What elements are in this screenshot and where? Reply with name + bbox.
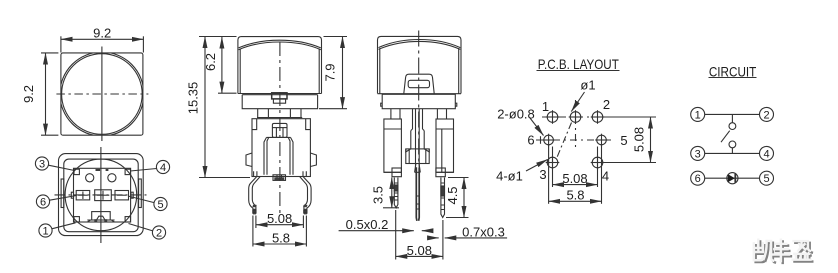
tube flare bbox=[411, 129, 424, 131]
pcb dim 5.08 vertical bbox=[650, 117, 652, 163]
svg-text:1: 1 bbox=[542, 99, 549, 114]
label 0.5x0.2 with leader bbox=[339, 230, 433, 232]
top edge tabs bbox=[96, 169, 101, 171]
circuit title underline bbox=[709, 77, 757, 79]
pcb hole 2 bbox=[591, 110, 605, 124]
switch body outline bbox=[252, 119, 310, 177]
stub right bbox=[437, 109, 446, 119]
svg-text:6.2: 6.2 bbox=[203, 53, 218, 71]
LED cathode bar bbox=[734, 174, 736, 183]
svg-text:5.08: 5.08 bbox=[267, 211, 292, 226]
leader 6 bbox=[50, 196, 77, 201]
svg-text:6: 6 bbox=[695, 173, 701, 185]
pin number balloon 2 bbox=[152, 226, 165, 239]
pcb extension line hole6 down bbox=[548, 145, 550, 204]
dimension 15.35 (overall height) bbox=[199, 37, 250, 178]
svg-text:5: 5 bbox=[620, 133, 627, 148]
svg-text:4: 4 bbox=[763, 148, 769, 160]
side cap inner side lines bbox=[380, 48, 459, 93]
neck base plate bbox=[257, 117, 302, 119]
side collar bbox=[382, 94, 455, 108]
svg-text:2-ø0.8: 2-ø0.8 bbox=[497, 107, 535, 122]
pcb hole 3 bbox=[546, 156, 560, 170]
top view horizontal center line bbox=[56, 93, 148, 95]
leader 1 bbox=[52, 223, 76, 229]
side cap inner contour (double dome) bbox=[379, 40, 461, 48]
svg-text:4.5: 4.5 bbox=[445, 186, 460, 204]
pcb title underline bbox=[537, 70, 620, 72]
pin pad bottom-right bbox=[125, 217, 130, 222]
dimension 9.2 vertical (left) bbox=[41, 53, 58, 135]
pin number balloon 6 bbox=[36, 195, 49, 208]
front cap outline bbox=[238, 37, 322, 94]
front cap inner top contour (double dome) bbox=[239, 40, 321, 48]
bottom boss dark marks bbox=[94, 219, 97, 222]
side cap window outer bbox=[404, 74, 434, 93]
dimension 6.2 (cap height) bbox=[218, 37, 237, 93]
leader diameter 1 bbox=[571, 92, 584, 112]
svg-text:2: 2 bbox=[156, 227, 162, 239]
pin pad top-left bbox=[74, 169, 79, 174]
top view vertical center line bbox=[101, 47, 103, 142]
LED lead ticks bbox=[416, 196, 421, 209]
pin pad top-right bbox=[125, 169, 130, 174]
right lead narrow bbox=[441, 178, 445, 218]
LED leads thin pair bbox=[415, 167, 418, 221]
leader 4-diameter 1 bbox=[526, 160, 548, 172]
bottom view inner rounded square bbox=[64, 159, 138, 232]
LED leads inside tube bbox=[416, 109, 420, 167]
LED lens hole left bbox=[86, 174, 94, 182]
foot right bbox=[436, 168, 445, 177]
neck ticks bbox=[258, 109, 301, 118]
top view inner circle bbox=[62, 54, 143, 135]
wide tube section bbox=[411, 131, 424, 149]
right lead crimp ticks bbox=[441, 183, 445, 210]
left lead (bent) outer bbox=[249, 177, 257, 214]
svg-text:3: 3 bbox=[695, 148, 701, 160]
bottom view horizontal center line bbox=[55, 194, 148, 196]
circuit terminal 2 bbox=[760, 107, 774, 121]
leader 2-diameter 0.8 bbox=[530, 118, 544, 136]
svg-text:3: 3 bbox=[539, 167, 546, 182]
leg exit cone bbox=[415, 164, 421, 173]
pcb hole 4 bbox=[591, 156, 605, 170]
side cap window inner bbox=[408, 80, 429, 87]
dimension 9.2 horizontal (top) bbox=[61, 36, 143, 52]
top view cap square outline bbox=[56, 47, 148, 142]
wire 3-4 bbox=[705, 152, 760, 154]
column cross lines bbox=[384, 128, 454, 130]
pcb dim 5.08 bottom bbox=[553, 184, 598, 186]
bottom boss hat bbox=[97, 216, 106, 220]
circuit terminal numbers bbox=[695, 109, 770, 185]
top view corner arc circle (clipped) bbox=[60, 52, 144, 136]
dimension 4.5 (LED lead length) bbox=[446, 178, 469, 218]
svg-text:5.08: 5.08 bbox=[562, 171, 587, 186]
pcb extension line hole4 right bbox=[604, 162, 657, 164]
pin pad bottom-left bbox=[74, 217, 79, 222]
left lead crimp ticks bbox=[394, 183, 398, 200]
side view center line bbox=[418, 31, 420, 164]
pcb extension line col 2-4 down bbox=[597, 147, 599, 188]
switch contact lower bbox=[729, 141, 736, 148]
circuit terminal 5 bbox=[760, 171, 774, 185]
switch stub lower bbox=[731, 148, 733, 154]
svg-text:15.35: 15.35 bbox=[186, 82, 201, 115]
LED symbol circle bbox=[727, 173, 738, 184]
switch arm bbox=[721, 131, 730, 143]
right column inner line bbox=[441, 129, 443, 172]
svg-text:ø1: ø1 bbox=[580, 78, 595, 93]
svg-text:3.5: 3.5 bbox=[371, 186, 386, 204]
svg-text:3: 3 bbox=[39, 158, 45, 170]
pcb extension line hole2 right bbox=[604, 116, 657, 118]
bottom view circle bbox=[65, 159, 137, 231]
logo char Feng shadow bbox=[775, 242, 791, 263]
stub left bbox=[391, 109, 400, 119]
svg-text:4-ø1: 4-ø1 bbox=[496, 169, 523, 184]
circuit terminal 4 bbox=[760, 146, 774, 160]
pcb column center line bbox=[575, 100, 577, 147]
leader 3 bbox=[48, 165, 74, 170]
logo char Feng highlight bbox=[773, 240, 789, 261]
flange latch inner bbox=[273, 99, 285, 103]
circuit terminal 1 bbox=[691, 107, 705, 121]
left lead inner bbox=[252, 177, 260, 214]
svg-text:9.2: 9.2 bbox=[21, 85, 36, 103]
label 0.7x0.3 with leader bbox=[428, 237, 507, 239]
collar side nubs bbox=[381, 103, 457, 106]
body corner step left bbox=[252, 119, 257, 130]
right lead tip crimp bbox=[303, 205, 307, 214]
pcb dim 5.8 bottom bbox=[549, 200, 602, 202]
leg roots bbox=[254, 171, 307, 176]
leader 4 bbox=[130, 169, 156, 172]
front view center line bbox=[279, 42, 281, 216]
pcb diagonal center line bbox=[557, 123, 572, 159]
svg-text:6: 6 bbox=[40, 196, 46, 208]
center light-pipe tube bbox=[413, 109, 423, 129]
pcb extension line hole5 down bbox=[601, 145, 603, 204]
svg-text:5: 5 bbox=[763, 173, 769, 185]
pcb row center line middle bbox=[536, 139, 613, 141]
svg-text:5.8: 5.8 bbox=[566, 187, 584, 202]
pcb hole 6 bbox=[542, 134, 555, 147]
left lead tip crimp bbox=[253, 205, 257, 214]
wire 1-2 bbox=[705, 113, 760, 115]
svg-text:2: 2 bbox=[763, 109, 769, 121]
left column bracket bbox=[384, 119, 402, 172]
dimension 7.9 (cap + flange height) bbox=[319, 37, 347, 109]
front cap flange bbox=[242, 95, 317, 109]
svg-text:5: 5 bbox=[157, 199, 163, 211]
svg-text:P.C.B. LAYOUT: P.C.B. LAYOUT bbox=[538, 56, 619, 72]
pcb extension line col 1-3 down bbox=[552, 147, 554, 188]
foot left bbox=[392, 168, 401, 177]
pin number balloon 3 bbox=[35, 157, 169, 239]
cathode terminal box with minus bbox=[115, 191, 129, 200]
cup base box bbox=[406, 149, 429, 164]
plunger foot bbox=[273, 175, 286, 181]
body bottom edge bbox=[252, 176, 310, 178]
svg-text:2: 2 bbox=[603, 97, 610, 112]
dimension 5.8 (front outer lead span) bbox=[253, 216, 307, 247]
pcb row center line top bbox=[542, 116, 608, 118]
pcb hole 5 bbox=[595, 134, 608, 147]
right column bracket bbox=[436, 119, 454, 172]
wire 6-LED bbox=[705, 177, 760, 179]
svg-text:4: 4 bbox=[602, 169, 609, 184]
right lead inner bbox=[300, 177, 308, 214]
side notch right bbox=[139, 179, 142, 208]
pcb hole 1 bbox=[546, 110, 560, 124]
flange latch outer bbox=[272, 93, 287, 99]
svg-text:0.5x0.2: 0.5x0.2 bbox=[346, 217, 389, 232]
side cap bottom edge bbox=[378, 93, 462, 95]
circuit terminal 6 bbox=[691, 171, 705, 185]
base side tab right bbox=[131, 192, 133, 198]
switch stub upper bbox=[731, 114, 733, 122]
svg-text:6: 6 bbox=[527, 133, 534, 148]
LED triangle bbox=[728, 174, 735, 182]
svg-text:5.08: 5.08 bbox=[632, 127, 647, 152]
right lead (bent) outer bbox=[303, 177, 311, 214]
side cap outline bbox=[378, 36, 462, 93]
bottom view switch base square bbox=[74, 168, 131, 222]
plunger top block bbox=[272, 123, 287, 137]
side notch left bbox=[61, 179, 64, 208]
left lead narrow bbox=[394, 178, 398, 208]
front cap inner side lines bbox=[240, 49, 319, 94]
pcb center hole bbox=[569, 110, 583, 124]
body side tab right bbox=[310, 153, 316, 167]
svg-text:1: 1 bbox=[695, 109, 701, 121]
svg-text:9.2: 9.2 bbox=[93, 26, 111, 41]
pin number balloon 1 bbox=[39, 224, 52, 237]
leader 2 bbox=[129, 224, 153, 231]
front cap bottom edge bbox=[238, 93, 322, 95]
center boss box with plus bbox=[95, 190, 112, 201]
svg-text:5.08: 5.08 bbox=[407, 243, 432, 258]
dimension 5.08 (side lead pitch) bbox=[396, 210, 443, 260]
switch contact upper bbox=[729, 123, 736, 130]
bottom boss rect bbox=[92, 212, 111, 220]
svg-text:7.9: 7.9 bbox=[322, 63, 337, 81]
body side tab left bbox=[246, 153, 252, 167]
anode terminal box with plus bbox=[76, 191, 90, 200]
bottom boss flare bbox=[87, 220, 114, 222]
bottom view outer rounded square bbox=[59, 154, 144, 236]
logo char Ying shadow bbox=[794, 243, 812, 262]
logo char Kai shadow bbox=[756, 242, 775, 263]
body corner step right bbox=[306, 119, 311, 130]
base side tab left bbox=[71, 192, 73, 198]
circuit terminal 3 bbox=[691, 146, 705, 160]
bottom view vertical center line bbox=[100, 147, 102, 243]
svg-text:4: 4 bbox=[160, 162, 166, 174]
pin number balloon 5 bbox=[154, 197, 167, 210]
cup step bbox=[406, 149, 429, 152]
dimension 5.08 (front lead pitch) bbox=[256, 216, 304, 229]
logo char Ying highlight bbox=[793, 241, 811, 260]
leader 5 bbox=[128, 196, 154, 203]
pcb pin number labels bbox=[496, 78, 627, 203]
LED lens hole right bbox=[108, 174, 116, 182]
pin number balloon 4 bbox=[156, 160, 169, 173]
seat line segments bbox=[384, 171, 454, 173]
dimension 3.5 (switch lead length) bbox=[383, 178, 399, 208]
svg-text:0.7x0.3: 0.7x0.3 bbox=[462, 224, 505, 239]
svg-text:1: 1 bbox=[42, 225, 48, 237]
svg-text:5.8: 5.8 bbox=[272, 230, 290, 245]
plunger body trapezoid bbox=[264, 137, 293, 174]
logo char Kai highlight bbox=[754, 240, 773, 261]
